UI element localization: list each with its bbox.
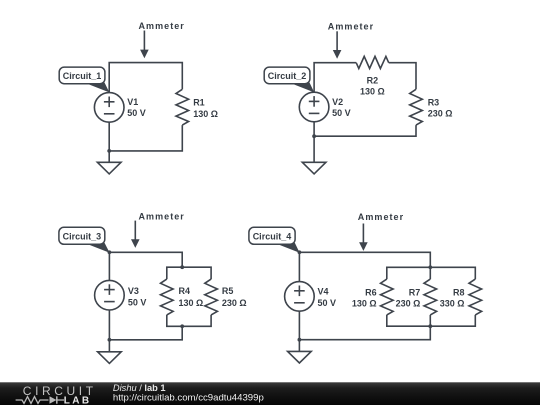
svg-text:Circuit_1: Circuit_1 bbox=[63, 71, 102, 81]
svg-text:130 Ω: 130 Ω bbox=[193, 109, 218, 119]
wire bottom rail circuit 1 bbox=[109, 122, 182, 151]
wire top rail right circuit 2 bbox=[389, 63, 416, 90]
node parallel bottom circuit 4 bbox=[428, 324, 432, 328]
V2 value label bbox=[332, 97, 351, 118]
svg-text:R7: R7 bbox=[409, 287, 421, 297]
svg-text:50 V: 50 V bbox=[332, 108, 351, 118]
svg-text:50 V: 50 V bbox=[127, 108, 146, 118]
R7 value label bbox=[396, 287, 421, 308]
svg-text:R8: R8 bbox=[453, 287, 465, 297]
ammeter arrow circuit 1 bbox=[140, 31, 149, 59]
svg-text:230 Ω: 230 Ω bbox=[222, 298, 247, 308]
ground circuit 3 bbox=[98, 340, 122, 364]
CircuitLab logo bbox=[16, 384, 97, 405]
svg-text:LAB: LAB bbox=[64, 396, 92, 405]
V1 value label bbox=[127, 97, 146, 118]
resistor R2 bbox=[356, 56, 389, 68]
node label balloon Circuit_1 bbox=[59, 67, 109, 92]
svg-text:130 Ω: 130 Ω bbox=[179, 298, 204, 308]
svg-text:50 V: 50 V bbox=[318, 298, 337, 308]
R4 value label bbox=[179, 286, 204, 308]
svg-text:230 Ω: 230 Ω bbox=[396, 299, 421, 309]
svg-text:R6: R6 bbox=[365, 287, 377, 297]
svg-text:230 Ω: 230 Ω bbox=[428, 109, 453, 119]
resistor R5 bbox=[205, 279, 218, 315]
V3 value label bbox=[128, 286, 147, 308]
svg-text:V2: V2 bbox=[332, 97, 343, 107]
node top-left circuit 4 bbox=[298, 250, 302, 254]
wire top rail circuit 2 bbox=[314, 63, 356, 93]
ground circuit 1 bbox=[97, 151, 121, 174]
svg-text:R2: R2 bbox=[367, 75, 379, 85]
resistor R3 bbox=[410, 89, 423, 125]
wire top rail circuit 4 bbox=[299, 252, 430, 281]
svg-text:R1: R1 bbox=[193, 98, 205, 108]
svg-text:50 V: 50 V bbox=[128, 298, 147, 308]
node label balloon Circuit_2 bbox=[264, 67, 314, 92]
voltage source V4 bbox=[285, 282, 315, 312]
R2 value label bbox=[360, 75, 385, 96]
ammeter arrow circuit 3 bbox=[131, 221, 140, 248]
voltage source V3 bbox=[95, 280, 125, 310]
wire bottom rail circuit 2 bbox=[314, 122, 416, 136]
wire parallel top bar circuit 4 bbox=[387, 267, 476, 279]
resistor R8 bbox=[469, 279, 482, 315]
wire parallel bottom bar circuit 3 bbox=[167, 315, 211, 326]
svg-text:V3: V3 bbox=[128, 286, 139, 296]
node parallel top circuit 3 bbox=[180, 265, 184, 269]
svg-text:Circuit_3: Circuit_3 bbox=[63, 232, 102, 242]
node top-left circuit 3 bbox=[108, 250, 112, 254]
wire top rail circuit 3 bbox=[109, 252, 182, 280]
voltage source V1 bbox=[94, 93, 124, 123]
resistor R1 bbox=[176, 89, 189, 125]
svg-text:Ammeter: Ammeter bbox=[139, 21, 185, 31]
wire bottom rail circuit 3 bbox=[109, 310, 182, 340]
node parallel top circuit 4 bbox=[428, 265, 432, 269]
node junction circuit 2 bbox=[312, 134, 316, 138]
svg-text:http://circuitlab.com/cc9adtu4: http://circuitlab.com/cc9adtu44399p bbox=[113, 392, 264, 403]
R3 value label bbox=[428, 97, 453, 118]
svg-text:Ammeter: Ammeter bbox=[328, 22, 374, 32]
node junction circuit 3 bbox=[108, 338, 112, 342]
voltage source V2 bbox=[299, 92, 329, 122]
V4 value label bbox=[318, 287, 337, 309]
ground circuit 4 bbox=[288, 340, 312, 363]
svg-text:R3: R3 bbox=[428, 97, 440, 107]
resistor R4 bbox=[161, 279, 174, 315]
svg-text:R4: R4 bbox=[179, 286, 191, 296]
footer bar bbox=[0, 382, 540, 405]
node junction circuit 1 bbox=[107, 149, 111, 153]
resistor R7 bbox=[424, 279, 437, 315]
wire middle resistor leads circuit 4 bbox=[429, 267, 431, 326]
svg-text:R5: R5 bbox=[222, 286, 234, 296]
wire bottom rail circuit 4 bbox=[299, 311, 430, 340]
R8 value label bbox=[440, 287, 465, 308]
wire parallel bottom bar circuit 4 bbox=[387, 315, 476, 326]
svg-text:V1: V1 bbox=[127, 97, 138, 107]
svg-text:Circuit_4: Circuit_4 bbox=[253, 232, 292, 242]
wire parallel top bar circuit 3 bbox=[167, 267, 211, 279]
ammeter arrow circuit 4 bbox=[359, 224, 368, 251]
R6 value label bbox=[352, 287, 377, 308]
node label balloon Circuit_3 bbox=[59, 227, 110, 253]
ground circuit 2 bbox=[302, 136, 326, 174]
svg-text:Ammeter: Ammeter bbox=[139, 212, 185, 222]
svg-text:Circuit_2: Circuit_2 bbox=[268, 71, 307, 81]
node label balloon Circuit_4 bbox=[249, 227, 300, 253]
R5 value label bbox=[222, 286, 247, 308]
wire top rail circuit 1 bbox=[109, 63, 182, 93]
svg-text:V4: V4 bbox=[318, 287, 329, 297]
node parallel bottom circuit 3 bbox=[180, 324, 184, 328]
R1 value label bbox=[193, 98, 218, 119]
resistor R6 bbox=[381, 279, 394, 315]
svg-text:130 Ω: 130 Ω bbox=[360, 87, 385, 97]
svg-text:330 Ω: 330 Ω bbox=[440, 299, 465, 309]
svg-text:130 Ω: 130 Ω bbox=[352, 299, 377, 309]
ammeter arrow circuit 2 bbox=[333, 31, 342, 58]
svg-text:Ammeter: Ammeter bbox=[358, 212, 404, 222]
node junction circuit 4 bbox=[298, 338, 302, 342]
